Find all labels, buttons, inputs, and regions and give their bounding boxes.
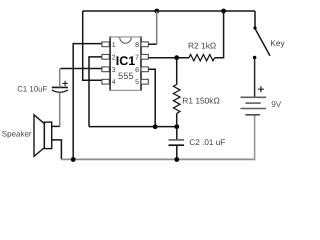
wire pin 8 to top rail: [148, 43, 156, 45]
IC IC1 body: [110, 37, 141, 90]
node junction bus / R1 C2: [174, 124, 179, 129]
svg-text:Key: Key: [270, 38, 285, 48]
label battery plus sign: [258, 86, 264, 92]
pin box 3: [102, 67, 109, 72]
svg-text:C1 10uF: C1 10uF: [17, 84, 47, 93]
wire pin 7 to R1 top: [148, 57, 189, 59]
svg-text:6: 6: [135, 67, 139, 74]
svg-text:R2 1kΩ: R2 1kΩ: [188, 41, 216, 51]
resistor R2: [189, 55, 215, 61]
svg-text:555: 555: [118, 71, 134, 81]
node junction pin7 / R1 / R2: [174, 55, 179, 60]
capacitor C2: [176, 127, 178, 140]
node junction top rail / R2 riser: [221, 9, 226, 14]
wire top rail V+: [83, 10, 255, 12]
svg-text:IC1: IC1: [116, 54, 136, 68]
wire speaker bottom terminal to ground rail: [52, 140, 62, 160]
label C1 plus sign: [63, 81, 68, 86]
wire ground rail: [61, 158, 254, 160]
wire R2 right to top rail: [215, 11, 224, 58]
node junction bus / pin 6 riser: [153, 124, 158, 129]
node junction ground rail / C2: [174, 157, 179, 162]
svg-text:4: 4: [112, 79, 116, 86]
wire pin 6 riser: [148, 69, 155, 126]
wire pin 1 to ground rail: [73, 44, 102, 160]
pin box 1: [102, 42, 109, 47]
wire pin 3 to C1: [60, 68, 102, 70]
pin box 5: [141, 79, 148, 84]
wire reset riser to pin 4: [83, 11, 102, 80]
wire battery negative lead: [254, 115, 256, 160]
svg-text:Speaker: Speaker: [2, 130, 32, 139]
IC notch: [120, 37, 132, 43]
pin box 4: [102, 79, 109, 84]
pin box 6: [141, 67, 148, 72]
wire speaker top terminal: [52, 125, 60, 127]
svg-text:8: 8: [135, 42, 139, 49]
node junction ground rail / pin 1: [71, 157, 76, 162]
resistor R1: [176, 58, 178, 85]
battery 9V: [241, 96, 267, 98]
pin box 7: [141, 54, 148, 59]
svg-text:1: 1: [112, 42, 116, 49]
pin box 8: [141, 42, 148, 47]
svg-text:C2 .01 uF: C2 .01 uF: [189, 138, 225, 147]
node junction top rail / pin 8 riser: [154, 9, 159, 14]
svg-text:9V: 9V: [271, 100, 282, 109]
svg-text:7: 7: [135, 54, 139, 61]
switch Key: [254, 11, 256, 28]
wire junction bus pin2/pin6/R1/C2: [89, 126, 177, 128]
wire pin 2 riser: [89, 57, 102, 127]
svg-text:R1 150kΩ: R1 150kΩ: [182, 95, 219, 105]
svg-text:5: 5: [135, 79, 139, 86]
speaker: [34, 115, 44, 157]
pin box 2: [102, 54, 109, 59]
wire switch to battery: [254, 59, 256, 97]
capacitor C1 (polarized): [52, 86, 68, 88]
